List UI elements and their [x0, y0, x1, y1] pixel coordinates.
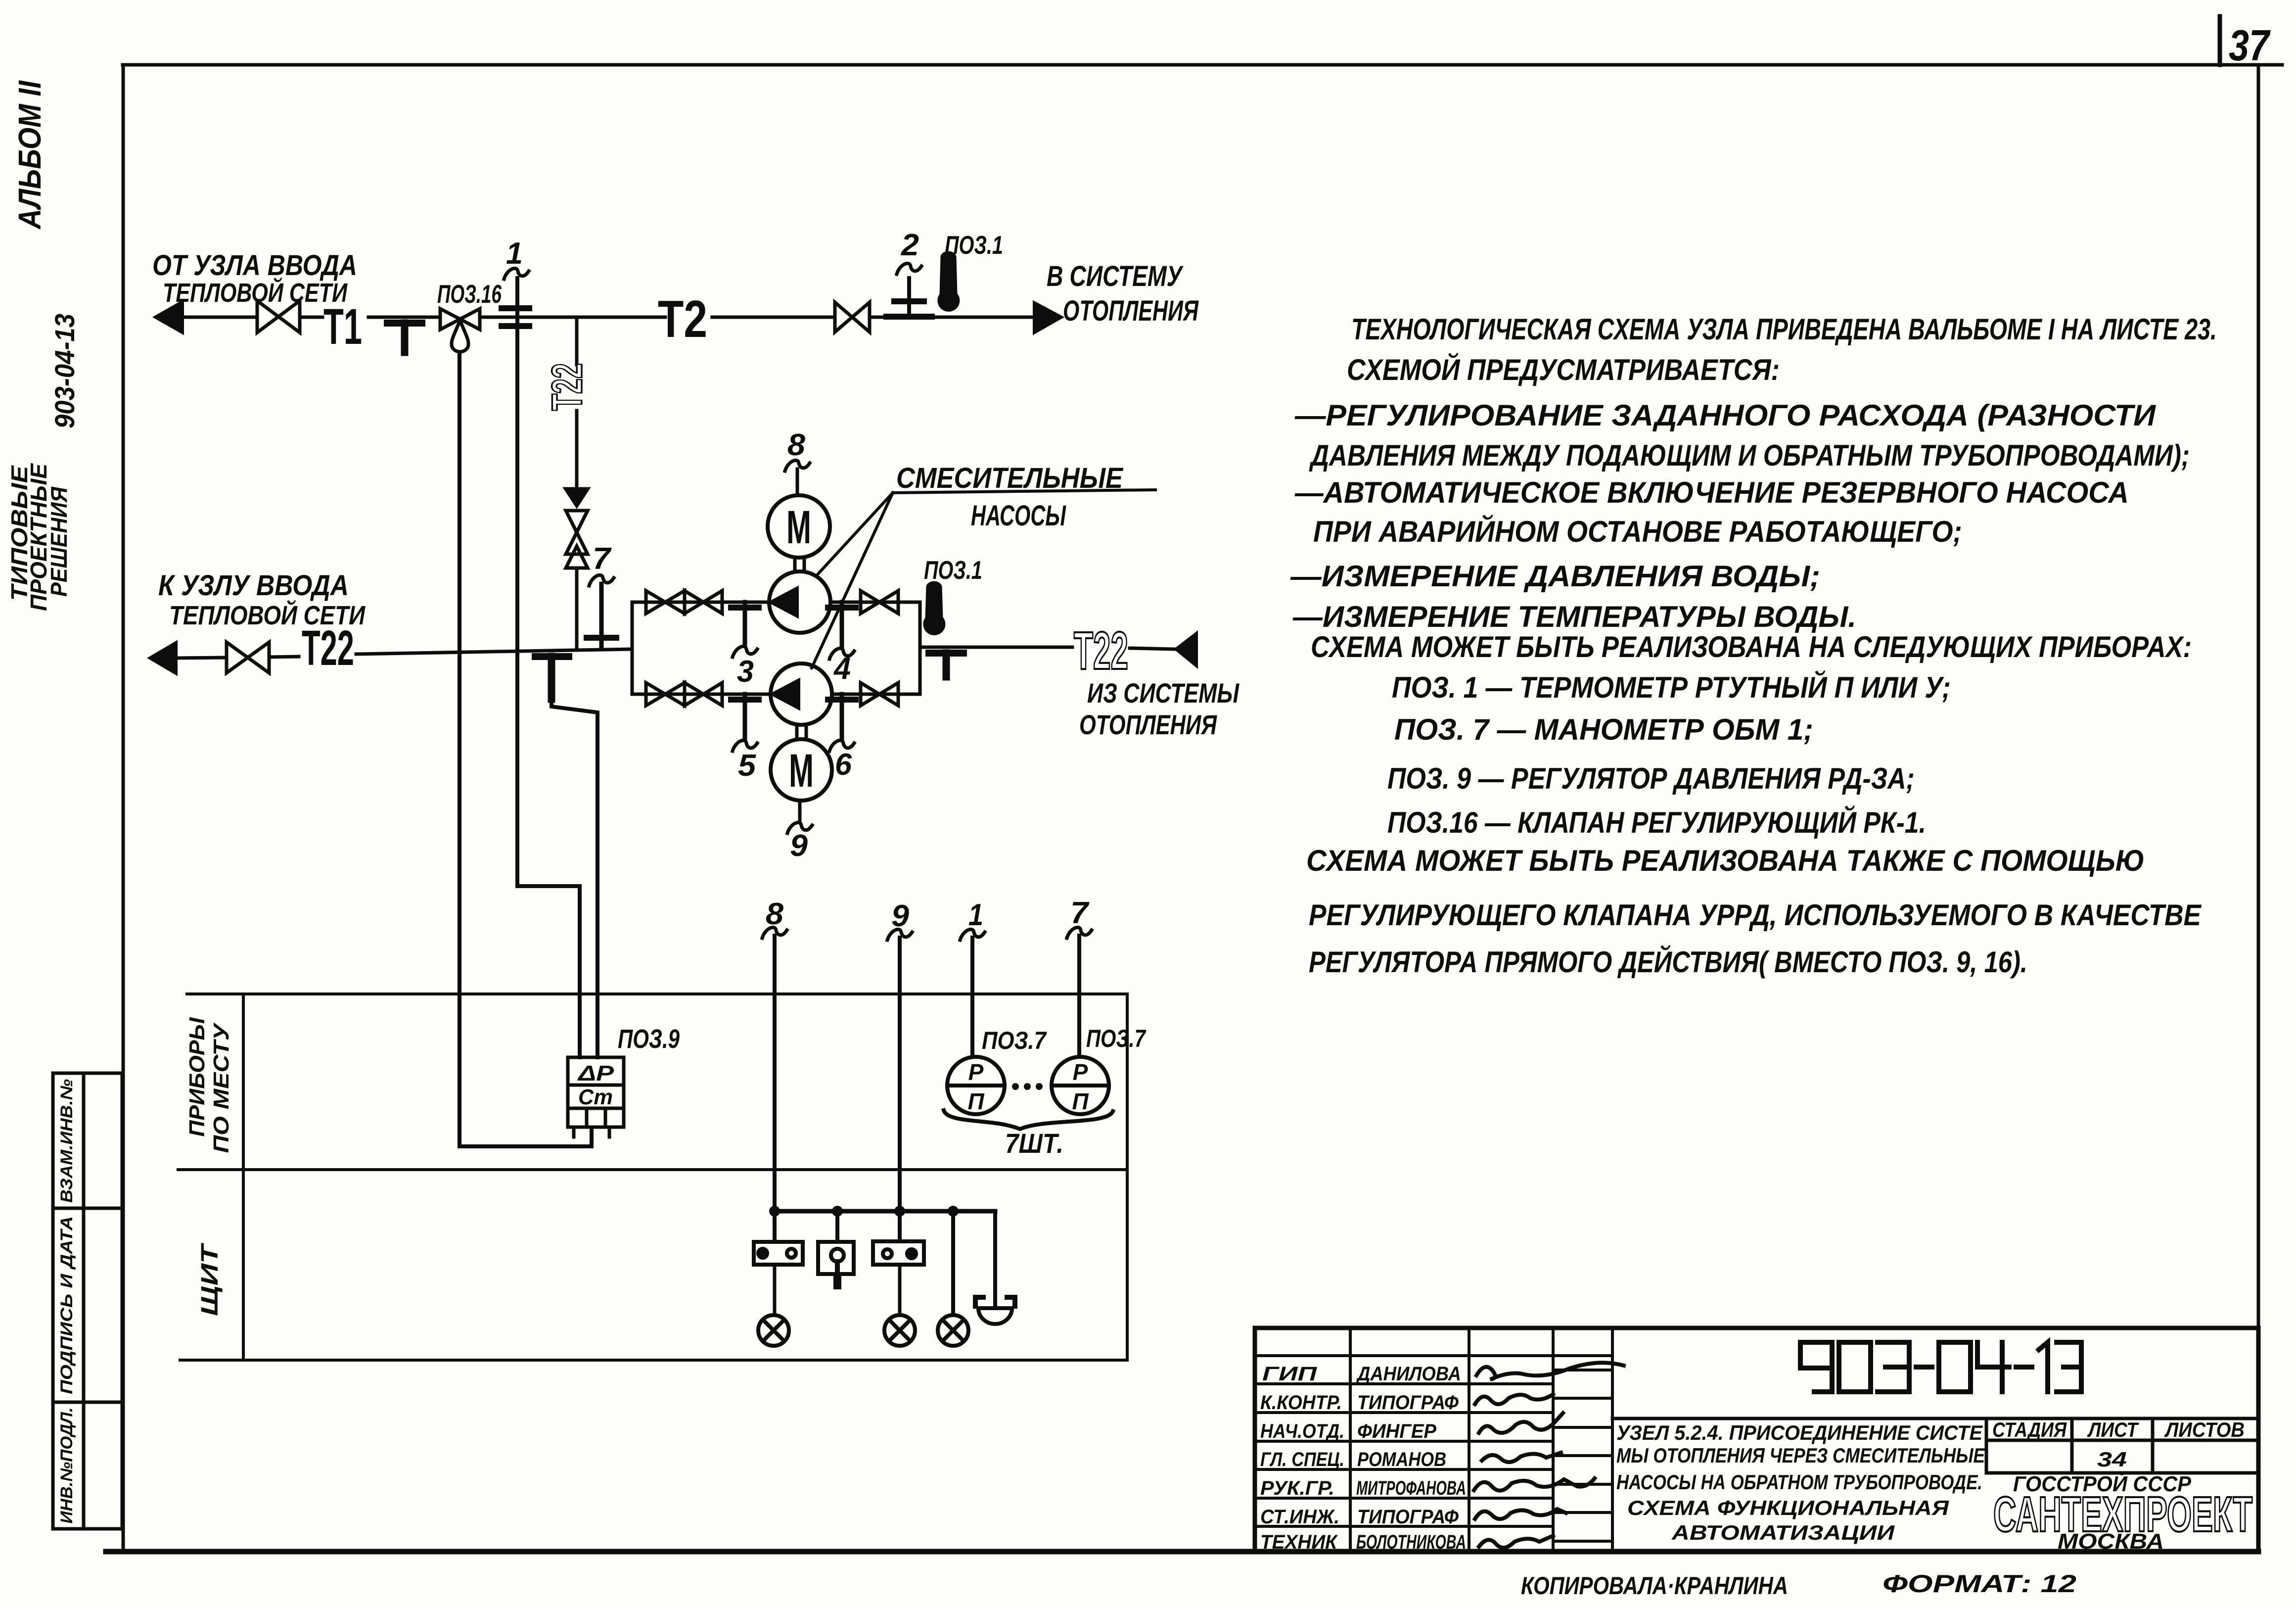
control valve poz.16 [440, 309, 480, 352]
wire T1 pipe segment 4 [480, 316, 665, 319]
wire impulse line A (from point 1) [517, 278, 580, 1057]
left revision stamp box [53, 1073, 122, 1529]
panel signal 1 hook [960, 929, 985, 940]
gate valve pair lower suction [646, 683, 722, 706]
wire M1 signal stub [796, 469, 799, 495]
svg-text:ТИПОГРАФ: ТИПОГРАФ [1357, 1392, 1459, 1414]
point 5 tap stub [743, 694, 747, 738]
point 7 tap stub [599, 584, 604, 647]
gate valve pair upper suction [646, 591, 722, 614]
wire lamp3 drop [951, 1211, 955, 1315]
svg-text:КОПИРОВАЛА·КРАНЛИНА: КОПИРОВАЛА·КРАНЛИНА [1521, 1572, 1788, 1600]
tap orifice point 3 [731, 605, 759, 611]
svg-text:6: 6 [835, 748, 852, 782]
wire key switch drop [835, 1211, 839, 1242]
svg-text:ПОЗ.1: ПОЗ.1 [924, 556, 982, 585]
svg-text:Ст: Ст [578, 1085, 613, 1109]
wire upper suction branch [632, 601, 769, 604]
svg-text:СТАДИЯ: СТАДИЯ [1992, 1418, 2067, 1441]
location table lines [178, 994, 1127, 1360]
wire T22 bypass branch middle [575, 411, 579, 488]
wire bell drop [993, 1211, 997, 1306]
svg-text:Р: Р [1073, 1059, 1088, 1085]
svg-text:ВЗАМ.ИНВ.№: ВЗАМ.ИНВ.№ [57, 1079, 76, 1203]
instrument point 5 hook [733, 740, 757, 751]
svg-text:ТИПОГРАФ: ТИПОГРАФ [1357, 1506, 1459, 1528]
terminal block 2 [873, 1241, 924, 1265]
svg-text:Т2: Т2 [658, 290, 707, 348]
svg-text:Т22: Т22 [1074, 620, 1128, 680]
svg-text:903-04-13: 903-04-13 [49, 314, 80, 428]
instrument point 1 hook [504, 268, 529, 279]
svg-text:9: 9 [891, 899, 910, 933]
wire T22 return segment 2 [269, 657, 299, 657]
point 2 tap stub [907, 278, 911, 317]
svg-text:ПОЗ. 7 — МАНОМЕТР ОБМ 1;: ПОЗ. 7 — МАНОМЕТР ОБМ 1; [1394, 713, 1813, 746]
return arrow (right, from heating system) [1175, 632, 1197, 667]
motor M2 [771, 739, 832, 801]
svg-text:РОМАНОВ: РОМАНОВ [1357, 1449, 1446, 1470]
instrument point 9 hook (motor) [787, 822, 812, 833]
brace under gauges [944, 1110, 1113, 1129]
svg-text:ПО МЕСТУ: ПО МЕСТУ [209, 1022, 233, 1153]
svg-text:34: 34 [2097, 1448, 2127, 1471]
leader to pump1 [817, 493, 893, 575]
svg-text:ПРИБОРЫ: ПРИБОРЫ [185, 1017, 209, 1136]
wire T22 return segment 3 [356, 649, 632, 654]
svg-text:МИТРОФАНОВА: МИТРОФАНОВА [1356, 1477, 1466, 1499]
pressure gauge poz.7 (left) [947, 1057, 1005, 1114]
wire T1 pipe segment 2 [300, 316, 322, 319]
instrument point 2 hook [897, 263, 921, 274]
svg-text:ПОЗ. 1 — ТЕРМОМЕТР РТУТНЫЙ: ПОЗ. 1 — ТЕРМОМЕТР РТУТНЫЙ П ИЛИ У; [1392, 670, 1951, 704]
bus junction dots [769, 1206, 959, 1217]
title block right section lines [1612, 1418, 2258, 1473]
svg-text:Р: Р [968, 1059, 984, 1085]
svg-text:ГИП: ГИП [1262, 1363, 1318, 1385]
leader shelf line [893, 490, 1155, 493]
tap orifice point 6 [828, 697, 856, 703]
svg-text:МЫ ОТОПЛЕНИЯ ЧЕРЕЗ СМЕСИТЕЛЬНЫ: МЫ ОТОПЛЕНИЯ ЧЕРЕЗ СМЕСИТЕЛЬНЫЕ [1616, 1444, 1986, 1467]
description text block [1290, 313, 2217, 979]
instrument point 8 hook (motor) [785, 460, 810, 471]
instrument point 7 hook [589, 575, 614, 586]
svg-text:—ИЗМЕРЕНИЕ ТЕМПЕРАТУРЫ ВОД: —ИЗМЕРЕНИЕ ТЕМПЕРАТУРЫ ВОДЫ. [1292, 600, 1856, 633]
wire panel bus [775, 1209, 995, 1214]
sheet number tick [2218, 16, 2222, 65]
pump discharge manifold (right) [918, 602, 922, 694]
coupling M1-pump1 [795, 558, 804, 571]
svg-text:—АВТОМАТИЧЕСКОЕ ВКЛЮЧЕНИЕ Р: —АВТОМАТИЧЕСКОЕ ВКЛЮЧЕНИЕ РЕЗЕРВНОГО НАС… [1294, 476, 2129, 509]
svg-text:ТЕХНИК: ТЕХНИК [1260, 1531, 1338, 1553]
bell [975, 1297, 1015, 1324]
wire to lamp 1 [773, 1265, 777, 1315]
svg-text:2: 2 [901, 228, 919, 262]
svg-text:7: 7 [593, 542, 612, 576]
mixing pump 1 [769, 571, 830, 633]
drain tee on T22 left (impulse tap B) [535, 657, 569, 699]
panel signal 7 hook [1067, 927, 1092, 938]
stage/sheet headers [1992, 1418, 2245, 1471]
svg-text:ТЕПЛОВОЙ СЕТИ: ТЕПЛОВОЙ СЕТИ [163, 277, 348, 308]
svg-text:ПОЗ.16: ПОЗ.16 [437, 280, 502, 309]
bypass valve (vertical) [566, 511, 588, 568]
svg-text:АЛЬБОМ II: АЛЬБОМ II [12, 80, 47, 230]
key switch [818, 1242, 854, 1285]
title block role labels [1260, 1363, 1344, 1553]
terminal block 1 [754, 1242, 803, 1265]
svg-text:ПОЗ.1: ПОЗ.1 [945, 231, 1003, 260]
ellipsis dots between gauges [1012, 1083, 1043, 1090]
svg-text:ФИНГЕР: ФИНГЕР [1357, 1420, 1436, 1442]
instrument point 3 hook [733, 646, 757, 657]
svg-text:ПОЗ. 9 — РЕГУЛЯТОР ДАВЛЕНИЯ: ПОЗ. 9 — РЕГУЛЯТОР ДАВЛЕНИЯ РД-ЗА; [1387, 762, 1915, 795]
tap orifice at point 1 [502, 308, 529, 326]
svg-text:ДАВЛЕНИЯ МЕЖДУ ПОДАЮЩИМ И ОБР: ДАВЛЕНИЯ МЕЖДУ ПОДАЮЩИМ И ОБРАТНЫМ ТРУБО… [1309, 439, 2190, 472]
svg-text:ПОЗ.9: ПОЗ.9 [618, 1024, 680, 1054]
svg-text:5: 5 [738, 749, 757, 783]
svg-text:ЩИТ: ЩИТ [197, 1242, 223, 1316]
wire T22 return segment 1 [177, 658, 227, 658]
svg-text:ГЛ. СПЕЦ.: ГЛ. СПЕЦ. [1260, 1449, 1344, 1470]
drawing frame left border [122, 65, 125, 1552]
bypass valve stack flow arrow [564, 488, 590, 508]
title block outer box [1255, 1328, 2258, 1552]
svg-text:РЕШЕНИЯ: РЕШЕНИЯ [46, 486, 72, 597]
thermometer poz.1 on T2 [938, 252, 959, 311]
panel signal 9 hook [887, 929, 912, 940]
svg-text:1: 1 [968, 898, 983, 932]
svg-text:7: 7 [1070, 896, 1090, 930]
wire panel line 9 [898, 938, 902, 1241]
svg-text:4: 4 [833, 652, 851, 686]
indicator lamp 3 [938, 1315, 968, 1346]
wire panel line 7 [1077, 936, 1081, 1057]
coupling pump2-M2 [797, 725, 806, 739]
wire to lamp 2 [898, 1265, 902, 1315]
svg-text:ИНВ.№ПОДЛ.: ИНВ.№ПОДЛ. [57, 1408, 76, 1524]
valve on T1 [257, 301, 300, 332]
svg-text:НАСОСЫ: НАСОСЫ [971, 500, 1066, 532]
wire panel line 8 [773, 936, 777, 1242]
drawing frame bottom border [106, 1549, 2258, 1555]
wire upper discharge branch [830, 601, 920, 604]
document number 903-04-13 (stencil strokes) [1800, 1342, 2081, 1392]
svg-text:МОСКВА: МОСКВА [2058, 1529, 2164, 1554]
point 4 tap stub [840, 602, 844, 646]
thermometer poz.1 on return [924, 582, 945, 634]
gate valve upper discharge [861, 591, 898, 614]
svg-text:СХЕМА МОЖЕТ БЫТЬ РЕАЛИЗО: СХЕМА МОЖЕТ БЫТЬ РЕАЛИЗОВАНА ТАКЖЕ С ПОМ… [1306, 844, 2145, 877]
svg-text:—РЕГУЛИРОВАНИЕ ЗАДАННОГО Р: —РЕГУЛИРОВАНИЕ ЗАДАННОГО РАСХОДА (РАЗНОС… [1294, 399, 2157, 432]
supply arrow (left, T1) [154, 301, 183, 333]
point 6 tap stub [840, 694, 844, 738]
drain tee on T1 [387, 323, 422, 352]
svg-text:П: П [1072, 1088, 1089, 1114]
wire control line from poz.16 valve [459, 353, 592, 1146]
svg-text:ПОЗ.16 — КЛАПАН РЕГУЛИРУЮЩИЙ: ПОЗ.16 — КЛАПАН РЕГУЛИРУЮЩИЙ РК-1. [1387, 805, 1926, 839]
svg-text:ЛИСТОВ: ЛИСТОВ [2164, 1418, 2245, 1441]
signature squiggles [1474, 1363, 1624, 1548]
svg-text:—ИЗМЕРЕНИЕ ДАВЛЕНИЯ ВОДЫ;: —ИЗМЕРЕНИЕ ДАВЛЕНИЯ ВОДЫ; [1290, 560, 1820, 593]
svg-text:ОТОПЛЕНИЯ: ОТОПЛЕНИЯ [1063, 295, 1199, 327]
wire T1 pipe segment 3 [368, 316, 440, 319]
svg-text:ЛИСТ: ЛИСТ [2087, 1418, 2139, 1441]
drain tee on return right [929, 653, 964, 677]
svg-text:НАЧ.ОТД.: НАЧ.ОТД. [1260, 1420, 1344, 1442]
instrument point 4 hook [829, 648, 854, 659]
svg-text:ПОЗ.7: ПОЗ.7 [1086, 1025, 1147, 1052]
svg-text:СХЕМОЙ ПРЕДУСМАТРИВАЕТСЯ:: СХЕМОЙ ПРЕДУСМАТРИВАЕТСЯ: [1347, 353, 1780, 386]
svg-text:37: 37 [2229, 21, 2271, 70]
svg-text:М: М [786, 501, 811, 554]
svg-text:В СИСТЕМУ: В СИСТЕМУ [1047, 260, 1184, 292]
svg-text:3: 3 [737, 655, 754, 689]
svg-text:ДАНИЛОВА: ДАНИЛОВА [1356, 1363, 1461, 1385]
wire impulse line B elbow [551, 698, 597, 1057]
svg-text:П: П [967, 1088, 984, 1114]
svg-text:М: М [789, 745, 814, 797]
title block name labels [1356, 1363, 1466, 1553]
svg-text:ФОРМАТ: 12: ФОРМАТ: 12 [1883, 1570, 2076, 1598]
wire panel line 1 [970, 938, 974, 1057]
wire T22 return to arrow [1130, 648, 1175, 649]
return arrow (left, T22) [149, 642, 177, 674]
tap orifice at point 2 [886, 301, 932, 317]
svg-text:АВТОМАТИЗАЦИИ: АВТОМАТИЗАЦИИ [1671, 1521, 1895, 1544]
regulator poz.9 box [568, 1057, 624, 1137]
svg-text:ΔР: ΔР [577, 1061, 614, 1086]
instrument point 6 hook [829, 740, 854, 751]
svg-text:РУК.ГР.: РУК.ГР. [1260, 1477, 1334, 1499]
wire T1 pipe segment 1 [183, 316, 257, 319]
wire T22 return right segment [920, 646, 1072, 649]
title block inner lines (left tables) [1255, 1328, 1612, 1552]
point 3 tap stub [743, 602, 747, 644]
wire T22 bypass branch drop [575, 317, 579, 365]
svg-text:НАСОСЫ НА ОБРАТНОМ ТРУБОПРОВОД: НАСОСЫ НА ОБРАТНОМ ТРУБОПРОВОДЕ. [1616, 1470, 1982, 1494]
svg-text:Т22: Т22 [302, 620, 354, 676]
project title text [1616, 1421, 1986, 1544]
drawing frame top border [123, 63, 2282, 67]
tap orifice at point 7 [587, 635, 616, 641]
pressure gauge poz.7 (right) [1052, 1057, 1109, 1114]
indicator lamp 1 [758, 1315, 789, 1346]
svg-text:СТ.ИНЖ.: СТ.ИНЖ. [1260, 1506, 1339, 1528]
svg-text:9: 9 [790, 829, 808, 863]
svg-text:К.КОНТР.: К.КОНТР. [1260, 1392, 1342, 1414]
mixing pump 2 [771, 663, 832, 725]
svg-text:7ШТ.: 7ШТ. [1005, 1128, 1063, 1159]
indicator lamp 2 [884, 1315, 915, 1346]
svg-text:ПРИ АВАРИЙНОМ ОСТАНОВЕ РАБ: ПРИ АВАРИЙНОМ ОСТАНОВЕ РАБОТАЮЩЕГО; [1313, 515, 1962, 548]
wire lower suction branch [632, 693, 771, 696]
svg-text:К УЗЛУ ВВОДА: К УЗЛУ ВВОДА [158, 569, 349, 602]
pump suction manifold (left) [631, 602, 634, 694]
wire T2 pipe segment 2 [870, 316, 1034, 319]
tap orifice point 4 [828, 605, 856, 611]
svg-text:ОТ УЗЛА ВВОДА: ОТ УЗЛА ВВОДА [152, 249, 357, 282]
svg-text:БОЛОТНИКОВА: БОЛОТНИКОВА [1356, 1531, 1466, 1553]
svg-text:РЕГУЛИРУЮЩЕГО КЛАПАНА УРРД,: РЕГУЛИРУЮЩЕГО КЛАПАНА УРРД, ИСПОЛЬЗУЕМОГ… [1309, 898, 2202, 932]
svg-text:1: 1 [506, 236, 523, 271]
drawing frame right border [2257, 65, 2260, 1552]
wire M2 signal stub [798, 801, 802, 821]
panel signal 8 hook [762, 927, 787, 938]
gate valve lower discharge [861, 683, 898, 706]
wire T2 pipe segment [712, 316, 835, 319]
leader to pump2 [812, 493, 893, 668]
svg-text:Т1: Т1 [323, 298, 362, 355]
svg-text:ПОДПИСЬ И ДАТА: ПОДПИСЬ И ДАТА [57, 1216, 76, 1394]
svg-text:ТЕХНОЛОГИЧЕСКАЯ СХЕМА УЗЛА ПРИ: ТЕХНОЛОГИЧЕСКАЯ СХЕМА УЗЛА ПРИВЕДЕНА ВАЛ… [1351, 313, 2217, 346]
svg-text:СХЕМА МОЖЕТ БЫТЬ РЕАЛИЗОВАНА: СХЕМА МОЖЕТ БЫТЬ РЕАЛИЗОВАНА НА СЛЕДУЮЩИ… [1311, 630, 2192, 663]
valve on T2 [835, 302, 870, 332]
tap orifice point 5 [731, 697, 759, 703]
svg-text:ПОЗ.7: ПОЗ.7 [982, 1027, 1047, 1054]
svg-text:ИЗ СИСТЕМЫ: ИЗ СИСТЕМЫ [1087, 677, 1240, 709]
svg-text:8: 8 [787, 428, 806, 462]
svg-text:УЗЕЛ 5.2.4. ПРИСОЕДИНЕНИЕ СИСТ: УЗЕЛ 5.2.4. ПРИСОЕДИНЕНИЕ СИСТЕ [1616, 1421, 1983, 1444]
wire T22 bypass branch bottom [575, 568, 579, 649]
valve on T22 return [227, 642, 269, 673]
motor M1 [768, 495, 830, 558]
supply arrow (right, to heating system) [1034, 302, 1062, 333]
svg-text:Т22: Т22 [544, 363, 591, 411]
svg-text:РЕГУЛЯТОРА ПРЯМОГО ДЕЙСТВИЯ(: РЕГУЛЯТОРА ПРЯМОГО ДЕЙСТВИЯ( ВМЕСТО ПОЗ.… [1309, 945, 2027, 979]
svg-text:СХЕМА ФУНКЦИОНАЛЬНАЯ: СХЕМА ФУНКЦИОНАЛЬНАЯ [1627, 1496, 1950, 1519]
wire lower discharge branch [832, 693, 920, 696]
svg-text:ОТОПЛЕНИЯ: ОТОПЛЕНИЯ [1079, 709, 1217, 740]
